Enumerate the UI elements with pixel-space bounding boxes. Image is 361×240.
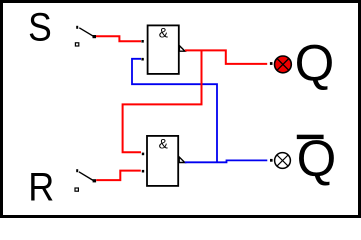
U1 pin dot input A	[141, 40, 143, 43]
switch S lever	[79, 28, 93, 37]
svg-text:S: S	[28, 6, 52, 50]
lamp Q-bar (off)	[275, 153, 291, 169]
wire R switch to U2 input B (red)	[96, 171, 141, 181]
lamp Q-bar cross lines	[277, 155, 288, 166]
switch R lower contact (open square)	[75, 188, 78, 191]
svg-text:Q: Q	[297, 130, 337, 187]
NAND gate U2 body	[147, 136, 178, 186]
svg-text:&: &	[159, 26, 168, 41]
U2 pin dot input B	[142, 170, 144, 173]
svg-text:&: &	[159, 136, 168, 151]
U1 pin dot input B	[141, 58, 143, 61]
wire feedback Q-bar to U1 input B (blue)	[132, 59, 217, 163]
switch S lower contact (open square)	[75, 43, 78, 46]
NAND gate U1 body	[148, 25, 179, 74]
switch R lever	[79, 172, 93, 181]
label Q-bar overline	[297, 135, 324, 139]
wire U1 output to Q lamp (red)	[185, 50, 267, 64]
svg-text:R: R	[28, 166, 54, 210]
wire S switch to U1 input A (red)	[96, 36, 141, 41]
lamp Q (lit, red)	[275, 56, 292, 73]
U2 output inversion triangle	[179, 157, 185, 163]
switch R (input contact tick)	[76, 169, 78, 172]
wire U2 output to Q-bar lamp (blue)	[185, 160, 267, 162]
Q lamp wire end dot	[270, 62, 273, 65]
switch R pivot dot	[93, 179, 97, 182]
switch S (input contact tick)	[76, 26, 78, 29]
switch S pivot dot	[93, 35, 97, 38]
U2 pin dot input A	[142, 153, 144, 156]
U1 output inversion triangle	[179, 46, 185, 52]
wire U1 output cross-coupling to U2 input A (red)	[123, 50, 202, 152]
Q-bar lamp wire end dot	[270, 159, 273, 162]
svg-text:Q: Q	[295, 35, 335, 92]
lamp Q cross lines	[277, 59, 289, 71]
